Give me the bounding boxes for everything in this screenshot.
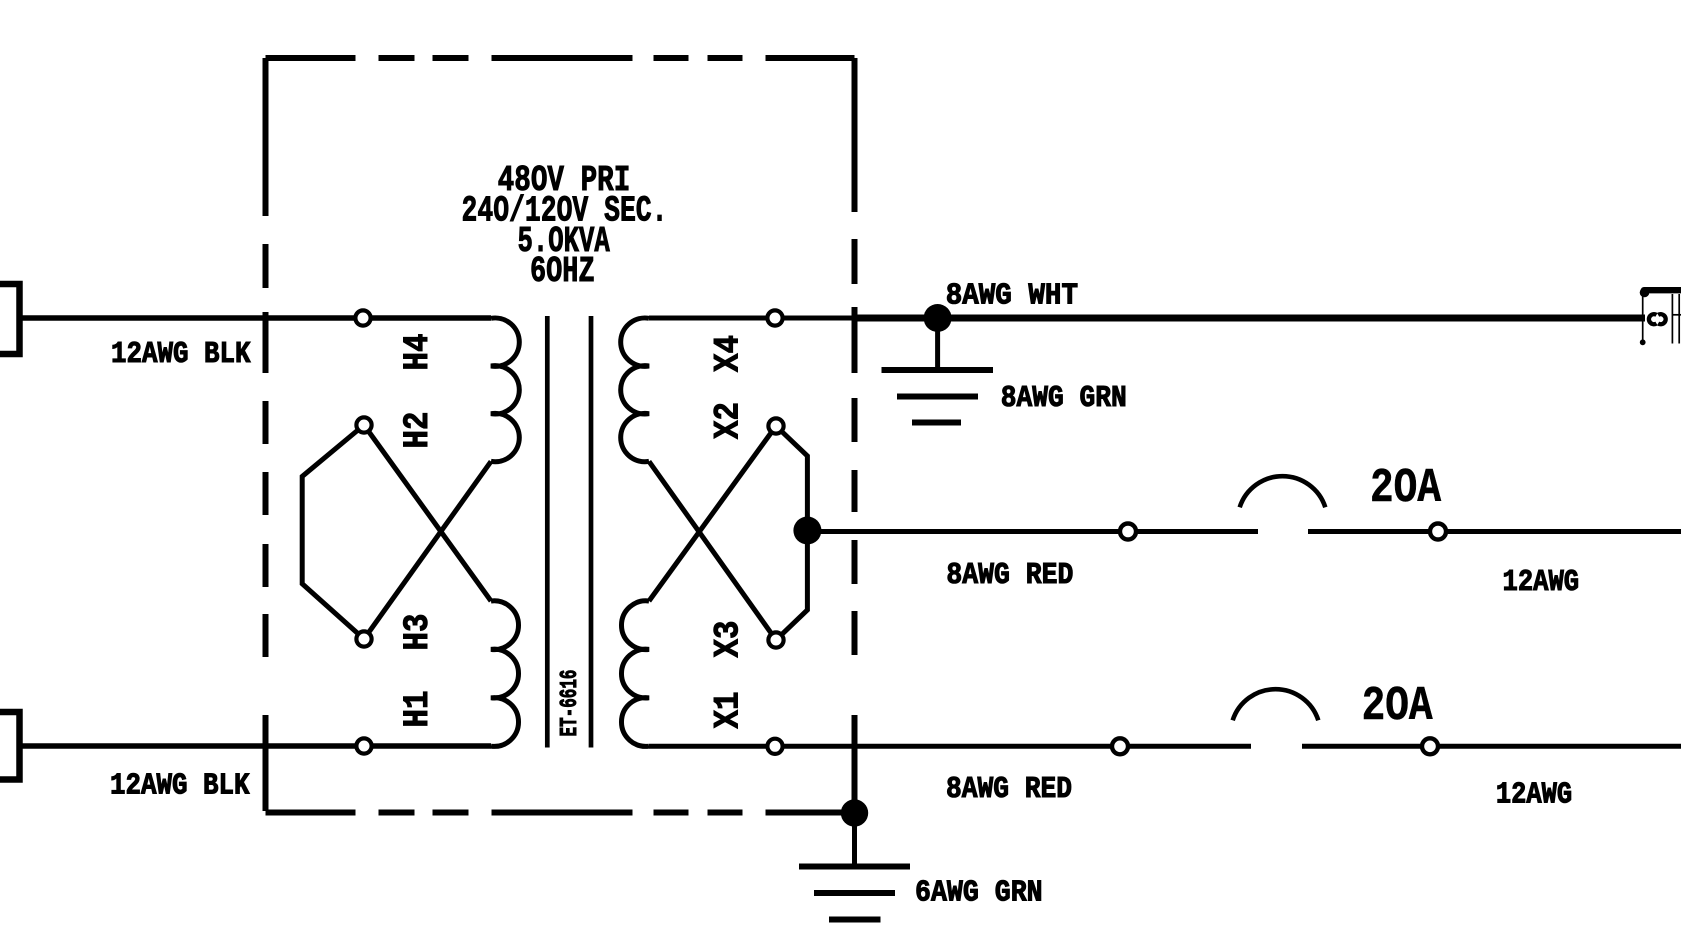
terminal lug J1 top left xyxy=(0,284,20,354)
ground GND2 6AWG GRN bar 2 xyxy=(814,890,895,896)
breaker CB1 20A arc xyxy=(1240,476,1326,507)
receptacle body thin vertical line 2 xyxy=(1678,294,1680,344)
wire secondary cross-link coil-top to X2 xyxy=(649,426,776,601)
wire secondary top 8AWG WHT inside box xyxy=(649,316,854,321)
wire secondary mid 12AWG run after breaker CB1 xyxy=(1308,529,1681,534)
svg-text:X2: X2 xyxy=(708,402,749,439)
wire secondary bottom 8AWG RED output run xyxy=(854,744,1251,749)
svg-text:X4: X4 xyxy=(708,335,749,372)
svg-text:12AWG: 12AWG xyxy=(1503,565,1580,600)
wire secondary bottom X1 run inside box xyxy=(649,744,854,749)
wire primary bottom input line to H1 xyxy=(20,743,491,749)
primary winding H4-coil upper xyxy=(491,318,519,462)
wire case ground stem at node G xyxy=(852,746,857,865)
svg-text:H3: H3 xyxy=(397,614,438,651)
ground GND2 6AWG GRN bar 3 xyxy=(829,917,881,923)
terminal circle H1 xyxy=(356,738,371,753)
terminal circle H2 xyxy=(356,417,371,432)
terminal circle X2 xyxy=(768,418,783,433)
svg-text:8AWG RED: 8AWG RED xyxy=(946,558,1073,593)
receptacle body thin horizontal line xyxy=(1672,314,1681,316)
receptacle contact left C xyxy=(1649,314,1657,324)
terminal lug J2 bottom left xyxy=(0,712,20,780)
wire secondary cross-link coil-bottom to X3 xyxy=(649,461,776,640)
transformer core line left xyxy=(545,316,550,748)
svg-text:ET-6616: ET-6616 xyxy=(557,670,584,737)
secondary winding X4-coil upper xyxy=(621,318,649,462)
secondary winding X1-coil lower xyxy=(621,601,649,747)
wire primary series jumper H2-H3 xyxy=(302,425,364,639)
splice circle bottom row right xyxy=(1422,738,1438,754)
transformer T1 enclosure dashed box top edge xyxy=(266,55,855,61)
wire secondary bottom 12AWG run after breaker CB2 xyxy=(1302,744,1681,749)
ground GND1 8AWG GRN bar 2 xyxy=(897,394,978,400)
receptacle symbol pin dot xyxy=(1640,339,1646,345)
receptacle symbol left thin pin line xyxy=(1642,293,1644,342)
transformer core line right xyxy=(589,316,594,748)
wire primary cross-link coil-top to H2 xyxy=(364,425,491,601)
svg-text:8AWG GRN: 8AWG GRN xyxy=(1001,381,1127,416)
wire primary cross-link coil-bottom to H3 xyxy=(364,461,491,639)
splice circle mid row left xyxy=(1120,524,1136,540)
wire secondary mid 8AWG RED output run xyxy=(807,529,1258,534)
transformer T1 enclosure dashed box bottom edge xyxy=(266,810,855,816)
junction dot node on X2-X3 jumper xyxy=(793,517,821,545)
svg-text:6AWG GRN: 6AWG GRN xyxy=(915,876,1043,911)
wire neutral ground stem at node N xyxy=(935,318,940,368)
ground GND1 8AWG GRN bar 1 xyxy=(882,367,994,373)
junction dot node G at box corner xyxy=(841,799,868,826)
splice circle mid row right xyxy=(1430,524,1446,540)
splice circle bottom row left xyxy=(1112,738,1128,754)
svg-text:X1: X1 xyxy=(708,692,749,729)
junction dot node N on WHT line xyxy=(924,304,952,332)
transformer T1 enclosure dashed box right edge xyxy=(852,58,858,813)
terminal circle X1 xyxy=(767,739,782,754)
wire primary top input line to H4 xyxy=(20,315,491,321)
svg-text:H4: H4 xyxy=(397,334,438,371)
svg-text:H1: H1 xyxy=(397,691,438,728)
terminal circle H3 xyxy=(356,631,371,646)
svg-text:12AWG BLK: 12AWG BLK xyxy=(110,769,250,804)
svg-text:2OA: 2OA xyxy=(1362,680,1433,734)
terminal circle X3 xyxy=(768,632,783,647)
receptacle contact right C xyxy=(1658,314,1666,324)
ground GND1 8AWG GRN bar 3 xyxy=(912,420,961,426)
svg-text:6OHZ: 6OHZ xyxy=(530,251,595,292)
svg-text:12AWG: 12AWG xyxy=(1496,778,1572,813)
svg-text:2OA: 2OA xyxy=(1370,462,1441,516)
receptacle symbol top bar (cut at image edge) xyxy=(1644,287,1681,293)
svg-text:H2: H2 xyxy=(397,412,438,449)
primary winding H1-coil lower xyxy=(491,601,519,747)
terminal circle X4 xyxy=(767,310,782,325)
svg-text:8AWG RED: 8AWG RED xyxy=(946,772,1072,807)
wire secondary top 8AWG WHT output run xyxy=(854,315,1645,322)
wire secondary parallel jumper X2-X3 xyxy=(776,426,807,640)
ground GND2 6AWG GRN bar 1 xyxy=(799,864,910,870)
svg-text:8AWG WHT: 8AWG WHT xyxy=(946,279,1078,314)
transformer T1 enclosure dashed box left edge xyxy=(263,58,269,813)
svg-text:12AWG BLK: 12AWG BLK xyxy=(111,337,251,372)
svg-text:X3: X3 xyxy=(708,621,749,658)
terminal circle H4 xyxy=(355,310,370,325)
receptacle symbol corner blob xyxy=(1640,288,1650,298)
breaker CB2 20A arc xyxy=(1233,689,1319,720)
receptacle body thin vertical line 1 xyxy=(1671,294,1673,344)
